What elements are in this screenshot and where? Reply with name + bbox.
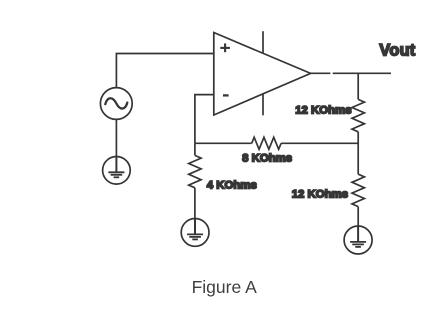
wire 12K resistor to ground: [357, 207, 359, 227]
ground G3 (right): [344, 226, 372, 254]
resistor R3 12 KOhms (top right, vertical): [352, 99, 364, 131]
wire 4K resistor to ground: [194, 188, 196, 219]
feedback wire left segment: [195, 142, 252, 144]
op-amp plus input label: [220, 43, 230, 52]
wire minus input: [195, 95, 214, 144]
svg-text:Figure A: Figure A: [192, 277, 257, 297]
AC source V1: [100, 88, 132, 120]
svg-text:8 KOhms: 8 KOhms: [242, 153, 292, 165]
output wire from op-amp tip: [311, 72, 331, 74]
ground G1 (left): [103, 157, 131, 185]
wire node to 4K resistor: [194, 143, 196, 155]
svg-text:4 KOhms: 4 KOhms: [207, 180, 257, 192]
op-amp bottom power pin: [262, 94, 264, 115]
svg-text:12 KOhms: 12 KOhms: [292, 188, 348, 200]
wire between right resistors: [357, 132, 359, 174]
output wire to Vout: [333, 72, 391, 74]
op-amp minus input label: [223, 94, 229, 96]
wire source top to plus input: [116, 54, 213, 88]
resistor R2 8 KOhms (horizontal): [252, 137, 281, 149]
op-amp top power pin: [262, 31, 264, 53]
wire output node down: [357, 73, 359, 99]
ground G2 (middle): [181, 219, 209, 247]
svg-text:Vout: Vout: [379, 42, 415, 60]
resistor R1 4 KOhms (vertical): [189, 155, 201, 187]
wire source bottom to ground: [115, 119, 117, 157]
svg-text:12 KOhms: 12 KOhms: [295, 105, 351, 117]
feedback wire right segment: [281, 142, 358, 144]
op-amp U1: [214, 33, 311, 116]
resistor R4 12 KOhms (bottom right, vertical): [352, 174, 364, 206]
